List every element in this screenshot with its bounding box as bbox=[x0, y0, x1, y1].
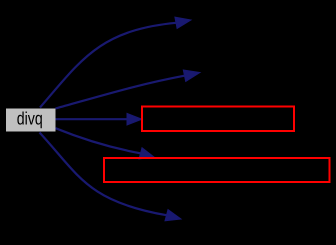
arrowhead of edge to truncated node B bbox=[139, 148, 154, 159]
edge divq to bottom node bbox=[40, 133, 167, 216]
edge divq to second node bbox=[56, 76, 185, 109]
edge divq to truncated node A bbox=[56, 118, 128, 120]
truncated node B (red box) bbox=[104, 158, 330, 182]
node divq (grey box) bbox=[6, 109, 56, 132]
arrowhead of edge to bottom node bbox=[165, 210, 181, 221]
edge divq to truncated node B bbox=[56, 128, 141, 153]
arrowhead of edge to truncated node A bbox=[127, 113, 142, 125]
arrowhead of edge to second node bbox=[183, 70, 200, 81]
edge divq to top node bbox=[40, 23, 176, 108]
arrowhead of edge to top node bbox=[175, 17, 191, 28]
truncated node A (red box) bbox=[142, 107, 294, 132]
node divq label bbox=[17, 111, 41, 128]
